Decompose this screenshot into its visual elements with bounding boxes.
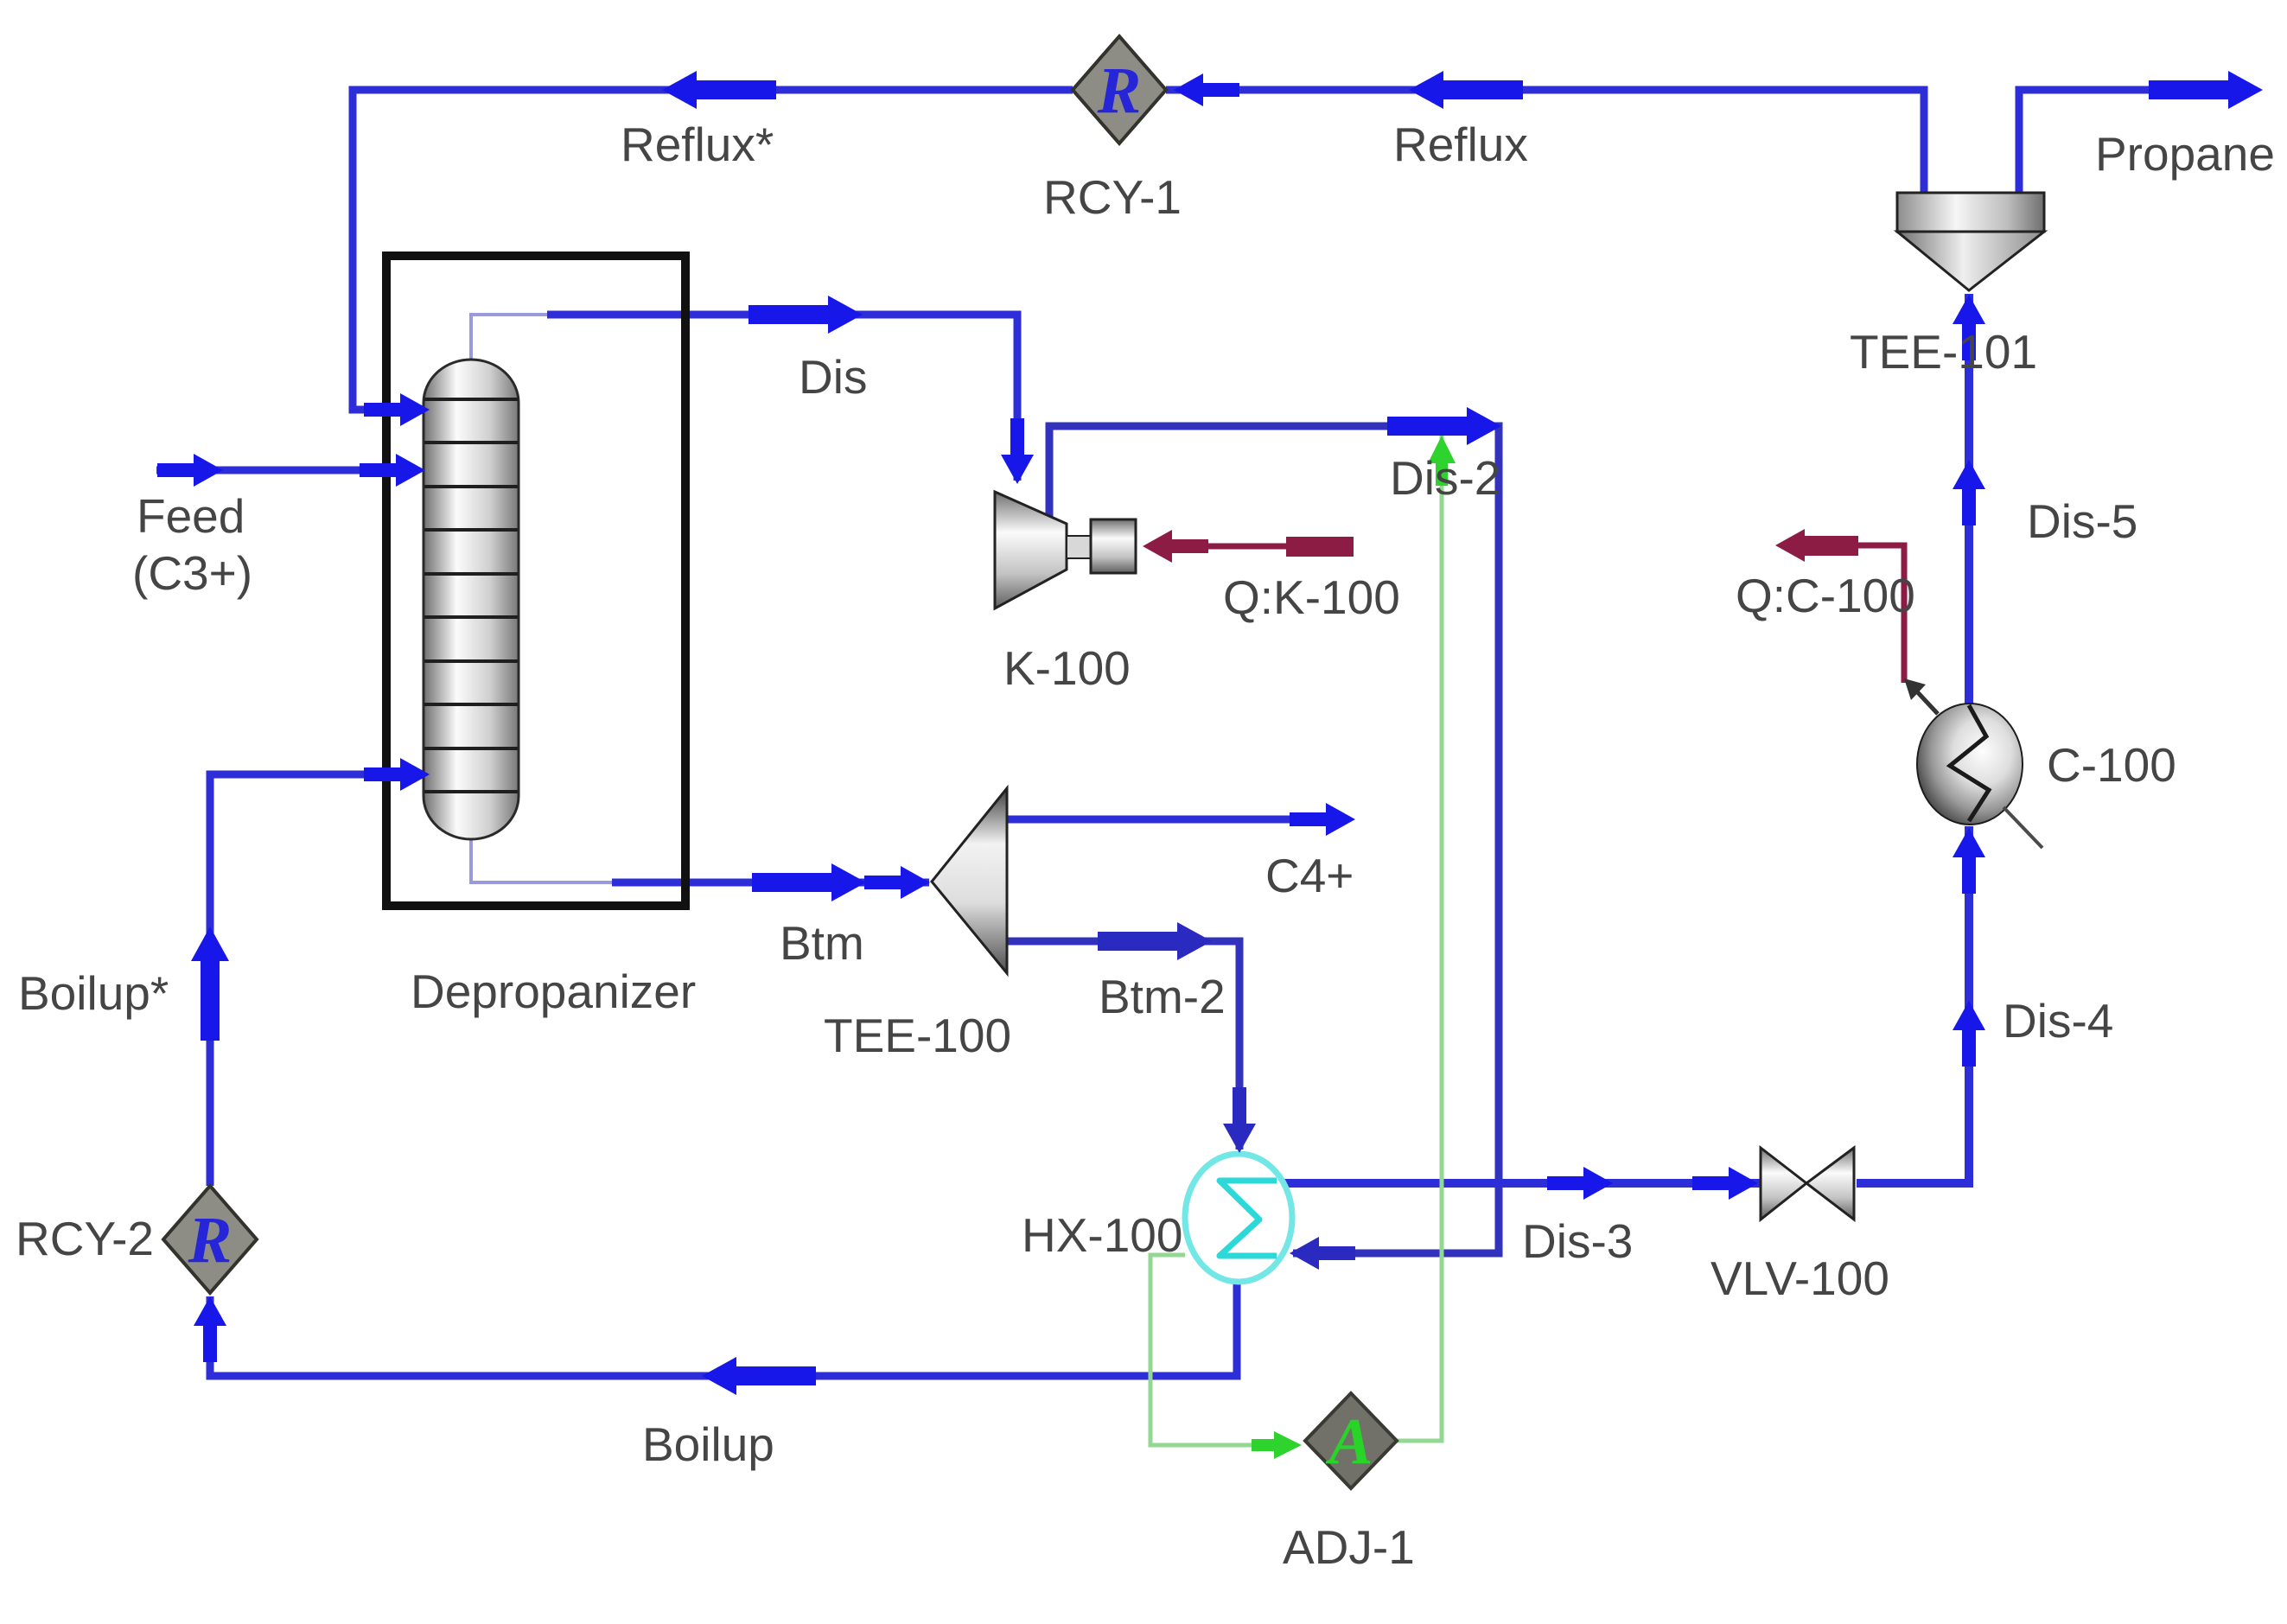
wire Btm takeoff (thin) <box>471 839 615 882</box>
svg-text:Reflux*: Reflux* <box>621 118 774 171</box>
svg-text:Boilup: Boilup <box>642 1417 774 1471</box>
wire Dis <box>547 315 1017 481</box>
arrow Feed into column <box>360 454 425 487</box>
wire Dis-3 (HX-100 to VLV-100) <box>1279 1179 1761 1188</box>
compressor K-100 shaft <box>1067 536 1091 558</box>
svg-text:Dis-3: Dis-3 <box>1522 1214 1633 1268</box>
valve VLV-100 <box>1761 1148 1806 1220</box>
svg-text:K-100: K-100 <box>1003 641 1131 695</box>
arrow Q:C-100 head <box>1775 529 1841 562</box>
svg-text:Btm: Btm <box>780 916 864 970</box>
column Depropanizer sub-flowsheet frame <box>386 256 685 906</box>
arrow Dis-5 mid <box>1953 460 1985 525</box>
wire Btm <box>612 879 929 887</box>
wire ADJ-1 from HX-100 (green) <box>1150 1255 1269 1445</box>
adjust ADJ-1 diamond <box>1305 1393 1397 1488</box>
arrow Dis-2 at corner <box>1387 407 1501 445</box>
wire ADJ-1 to Dis-2 (green) <box>1397 436 1442 1441</box>
arrow Dis-4 into C-100 <box>1953 828 1985 894</box>
arrow Btm-2 mid <box>1098 922 1212 960</box>
arrow Boilup* into column <box>364 758 430 791</box>
arrow Reflux* into column <box>364 393 430 426</box>
wire Propane <box>2019 90 2252 193</box>
svg-text:RCY-2: RCY-2 <box>16 1212 154 1265</box>
arrow Btm into TEE-100 <box>864 866 930 899</box>
svg-text:Feed: Feed <box>137 489 245 543</box>
column tower vessel <box>424 360 519 839</box>
heat-exchanger HX-100 sigma <box>1220 1181 1277 1256</box>
arrow Q:K-100 head <box>1143 530 1208 563</box>
cooler C-100 energy arrow line <box>1914 688 1938 714</box>
svg-text:Dis-2: Dis-2 <box>1390 451 1500 505</box>
tee TEE-101 funnel cone <box>1897 232 2044 290</box>
wire Reflux (TEE-101 to RCY-1) <box>1166 90 1924 193</box>
arrow Q:C-100 tail bar <box>1794 536 1858 556</box>
wire Dis-4 (VLV-100 to C-100) <box>1857 826 1969 1183</box>
svg-text:Propane: Propane <box>2095 127 2275 181</box>
arrow C4+ end <box>1290 803 1355 836</box>
arrow Dis into K-100 <box>1001 418 1034 484</box>
svg-text:Dis-5: Dis-5 <box>2027 494 2137 548</box>
arrow Btm-2 into HX-100 <box>1223 1087 1256 1153</box>
arrow Reflux mid <box>1409 71 1523 109</box>
wire Boilup* (RCY-2 to column bottom inlet) <box>210 774 413 1186</box>
tee TEE-101 funnel band <box>1897 193 2044 232</box>
arrow Q:K-100 tail bar <box>1286 537 1354 557</box>
svg-text:Reflux: Reflux <box>1393 118 1528 171</box>
arrow Reflux* mid <box>662 71 776 109</box>
recycle RCY-1 diamond <box>1073 36 1166 143</box>
arrow Boilup mid <box>702 1357 816 1395</box>
arrow Dis-3 mid <box>1547 1167 1613 1200</box>
recycle RCY-2 diamond <box>163 1186 257 1293</box>
svg-text:Q:K-100: Q:K-100 <box>1223 570 1400 624</box>
svg-text:Dis-4: Dis-4 <box>2003 994 2113 1048</box>
wire Boilup (HX-100 to RCY-2) <box>210 1282 1237 1376</box>
arrow Dis-3 into VLV-100 <box>1692 1167 1758 1200</box>
wire Dis takeoff (thin) <box>471 315 551 360</box>
arrow Btm mid <box>752 863 866 901</box>
arrow Boilup into RCY-2 <box>194 1296 226 1362</box>
svg-text:C-100: C-100 <box>2047 738 2176 792</box>
svg-text:Dis: Dis <box>799 350 867 404</box>
cooler C-100 sphere <box>1917 704 2023 825</box>
svg-text:Q:C-100: Q:C-100 <box>1736 569 1915 622</box>
heat-exchanger HX-100 circle <box>1185 1154 1292 1282</box>
svg-text:A: A <box>1326 1405 1373 1478</box>
arrow Propane end <box>2149 71 2263 109</box>
svg-text:Btm-2: Btm-2 <box>1099 970 1226 1023</box>
arrow Dis-4 mid <box>1953 1001 1985 1067</box>
svg-text:HX-100: HX-100 <box>1022 1208 1182 1262</box>
wire Reflux* (RCY-1 to column top inlet) <box>353 90 1073 410</box>
cooler C-100 zigzag <box>1950 705 1989 821</box>
svg-text:Boilup*: Boilup* <box>18 966 169 1020</box>
svg-text:R: R <box>1097 54 1142 127</box>
tee TEE-100 cone <box>932 788 1007 973</box>
arrow Dis mid <box>749 296 863 334</box>
svg-text:VLV-100: VLV-100 <box>1710 1251 1889 1305</box>
cooler C-100 tail line <box>2004 807 2042 848</box>
svg-text:R: R <box>188 1204 233 1277</box>
wire C4+ <box>1007 816 1347 824</box>
arrow Dis-5 into TEE-101 <box>1953 295 1985 360</box>
arrow Reflux into RCY-1 <box>1174 73 1239 106</box>
svg-text:ADJ-1: ADJ-1 <box>1283 1520 1415 1574</box>
arrow green into ADJ-1 <box>1252 1431 1302 1459</box>
wire Feed <box>156 467 413 474</box>
svg-text:C4+: C4+ <box>1265 849 1354 902</box>
svg-text:Depropanizer: Depropanizer <box>411 965 696 1018</box>
wire Q:C-100 energy <box>1782 545 1904 683</box>
svg-text:(C3+): (C3+) <box>132 546 252 600</box>
wire Q:K-100 energy <box>1150 544 1347 550</box>
svg-text:TEE-101: TEE-101 <box>1850 325 2037 379</box>
wire Btm-2 (TEE-100 to HX-100) <box>1007 941 1239 1150</box>
svg-text:TEE-100: TEE-100 <box>824 1009 1011 1062</box>
svg-text:RCY-1: RCY-1 <box>1043 170 1182 224</box>
wire Dis-2 (K-100 out to HX-100) <box>1049 426 1499 1253</box>
arrow green into Dis-2 <box>1428 436 1456 486</box>
column tray lines <box>424 399 518 792</box>
compressor K-100 cone <box>995 492 1067 608</box>
arrow Dis-2 into HX-100 <box>1290 1237 1355 1270</box>
arrow Boilup* mid <box>191 927 229 1041</box>
wire Dis-5 (C-100 to TEE-101) <box>1965 294 1973 707</box>
compressor K-100 driver box <box>1091 519 1136 573</box>
arrow Feed start <box>157 454 223 487</box>
